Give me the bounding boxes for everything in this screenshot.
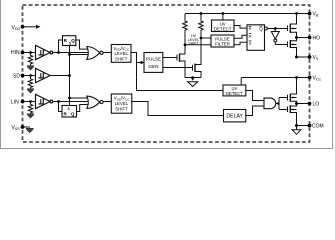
pin VDD [21, 25, 25, 29]
svg-text:HO: HO [313, 36, 321, 42]
ground LIN [27, 114, 34, 118]
svg-text:PULSE: PULSE [146, 57, 161, 62]
svg-text:LEVEL: LEVEL [115, 101, 129, 106]
wire SD buffer out [50, 75, 70, 77]
wire HO node vertical [290, 32, 296, 41]
wire HO out [297, 37, 310, 39]
wire pulse filter out1 to latch [234, 35, 247, 38]
transistor upper LO [288, 94, 297, 102]
wire LS2 out to delay [132, 102, 224, 116]
wire LIN input [23, 101, 36, 103]
wire HIN buffer out to NOR1 [53, 52, 88, 54]
wire VB to UV detect high [222, 14, 224, 21]
box UV detect high [212, 20, 235, 32]
junction LIN resistor tap [29, 100, 32, 103]
svg-text:DETECT: DETECT [214, 26, 232, 31]
svg-text:COM: COM [312, 124, 324, 130]
wire LO upper fet drain to VCC [290, 78, 296, 95]
resistor R1 pull-up [183, 14, 187, 32]
IC dashed boundary [23, 5, 310, 142]
inverter high side [271, 32, 279, 43]
svg-text:S: S [249, 41, 252, 46]
pin HO [308, 36, 312, 40]
svg-text:FILTER: FILTER [215, 42, 230, 47]
svg-text:Q: Q [259, 27, 263, 32]
transistor lower LO [288, 105, 297, 113]
transistor M2 level shift [193, 64, 196, 73]
wire branch down to low-side UV detect [137, 63, 224, 91]
arrow VDD supply [36, 25, 41, 29]
wire SD to NOR1 lower input [70, 54, 89, 56]
wire pulse filter out2 to latch [234, 42, 247, 45]
wire HV common source bar [185, 77, 201, 79]
junction VB rail R2 [200, 12, 203, 15]
junction R1 pulse filter tap [184, 43, 187, 46]
svg-text:SHIFT: SHIFT [115, 57, 128, 62]
junction R2 pulse filter tap [200, 37, 203, 40]
NOR gate low [87, 96, 103, 108]
wire inverter input [274, 29, 276, 32]
wire SD input [23, 75, 36, 77]
wire pulse filter input bottom [185, 44, 211, 46]
wire R2 to M2 drain [195, 31, 201, 65]
box delay [224, 110, 246, 122]
box pulse gen [144, 53, 163, 73]
svg-text:HIN: HIN [11, 50, 20, 56]
AND gate low side [264, 98, 276, 109]
pin LO [308, 102, 312, 106]
transistor lower HO [288, 40, 297, 48]
wire latch1 Q to NOR1 [76, 40, 89, 49]
ground SD [27, 89, 34, 93]
wire VS out [297, 56, 310, 58]
pin VCC [308, 76, 312, 80]
wire UV low out to AND [246, 91, 264, 101]
wire M1 source down [180, 61, 186, 78]
resistor R-LIN pulldown [28, 102, 32, 114]
box LS1 VDD/VCC level shift [111, 45, 131, 63]
svg-text:SHIFT: SHIFT [188, 42, 199, 46]
svg-text:DELAY: DELAY [226, 114, 243, 120]
ground COM output stage [292, 126, 301, 135]
wire pulse filter input top [201, 37, 211, 39]
resistor R2 pull-up [199, 14, 203, 32]
latch1 RSQ high input [63, 36, 76, 46]
wire VSS stub [23, 126, 30, 129]
junction VB rail upper fet drain [295, 12, 298, 15]
wire VDD arrow [23, 26, 37, 28]
junction VCC rail upper fet drain [295, 76, 298, 79]
wire HO upper fet drain to VB [290, 14, 296, 25]
junction SD buffer output [68, 74, 71, 77]
wire HO lower fet source to VS [290, 48, 296, 58]
pin HIN [21, 51, 25, 55]
node COM [295, 124, 298, 127]
wire latch2 Q to NOR2 [77, 105, 89, 112]
wire LO node vertical [290, 101, 296, 106]
wire delay out to AND [246, 106, 264, 116]
buffer SD schmitt [36, 68, 51, 82]
ground HIN [27, 66, 34, 70]
svg-text:SD: SD [13, 74, 20, 80]
ground VSS [26, 129, 34, 133]
pin LIN [21, 100, 25, 104]
wire VCC to UV detect low [240, 78, 242, 86]
junction HV source ground [191, 76, 194, 79]
pin COM [308, 124, 312, 128]
buffer LIN schmitt [36, 94, 53, 108]
wire LO lower fet source to COM [290, 113, 296, 126]
VCC rail [241, 77, 309, 79]
pin SD [21, 74, 25, 78]
pin label VDD [11, 25, 20, 131]
ground HV level shift [188, 78, 198, 87]
latch3 high side set/reset [247, 25, 265, 51]
node HO [295, 36, 298, 39]
junction inverter tap [274, 27, 277, 30]
junction HIN to latch1 R [57, 51, 60, 54]
latch2 RSQ low input [62, 106, 77, 118]
wire M2 source down [195, 72, 201, 78]
svg-text:R: R [249, 26, 252, 31]
wire LO out [297, 103, 310, 105]
svg-text:DETECT: DETECT [226, 91, 243, 96]
svg-text:GEN: GEN [148, 64, 158, 69]
pin VB [308, 12, 312, 16]
svg-text:SHIFT: SHIFT [115, 107, 128, 112]
junction LIN to latch2 R [57, 100, 60, 103]
wire NOR2 out to LS2 [103, 101, 111, 103]
wire SD vertical up branch to latch1 S [69, 46, 71, 76]
label HV level shift [188, 34, 200, 46]
svg-text:PULSE: PULSE [215, 36, 229, 41]
wire UV high out to latch R1 [234, 26, 247, 29]
wire SD vertical down branch to latch2 S [69, 76, 71, 106]
wire latch2 R input [59, 102, 63, 112]
junction SD resistor tap [29, 74, 32, 77]
node LO [295, 102, 298, 105]
wire HIN input [23, 52, 36, 54]
box UV detect low [223, 85, 246, 96]
wire NOR1 out to LS1 [103, 52, 111, 54]
junction pulse gen input branch [140, 61, 143, 64]
wire LIN buffer out to NOR2 [53, 101, 88, 103]
svg-text:Q: Q [71, 111, 75, 116]
svg-text:LIN: LIN [11, 99, 19, 105]
box pulse filter [211, 35, 234, 47]
wire LS1 out to pulse gen [131, 53, 144, 63]
svg-text:LEVEL: LEVEL [115, 51, 129, 56]
wire pulse gen out1 to M1 gate [163, 57, 177, 59]
pin VS [308, 55, 312, 59]
resistor R-SD pulldown [28, 76, 32, 89]
junction AND output split [277, 102, 279, 104]
NOR gate high [87, 47, 103, 60]
buffer HIN schmitt [36, 45, 53, 59]
wire AND out split to gates [276, 98, 288, 110]
transistor M1 level shift [177, 54, 180, 62]
transistor upper HO [288, 24, 297, 33]
svg-text:Q: Q [71, 38, 75, 43]
svg-text:LO: LO [313, 102, 320, 108]
junction SD branch to NOR1 [68, 53, 71, 56]
junction VB rail UV detect [222, 12, 225, 15]
junction SD branch to NOR2 [68, 97, 71, 100]
junction HIN resistor tap [29, 51, 32, 54]
wire COM out [297, 125, 310, 127]
pin VSS [21, 125, 25, 129]
node VS [295, 56, 298, 59]
wire R1 to M1 drain [180, 31, 186, 54]
resistor R-HIN pulldown [28, 53, 32, 66]
wire latch1 R input [59, 40, 63, 53]
wire latch3 Q out to upper gate [267, 28, 287, 30]
latch3 output bubble [264, 27, 267, 30]
VB rail [185, 13, 310, 15]
wire inverter out to lower gate [275, 42, 287, 45]
wire pulse gen out2 to M2 gate [163, 67, 193, 69]
wire SD to NOR2 top input [70, 97, 89, 99]
svg-text:R: R [249, 33, 252, 38]
box LS2 VDD/VCC level shift low side [111, 94, 132, 113]
outer page frame [1, 0, 333, 149]
